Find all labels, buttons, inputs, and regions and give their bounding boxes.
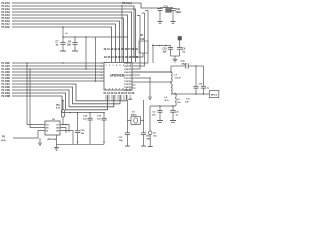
wire U2 out a: [60, 125, 69, 133]
svg-text:P2.0/D8: P2.0/D8: [2, 87, 11, 89]
wire P2.1/D9 net: [12, 90, 114, 107]
wire EEPROM data tap: [30, 69, 45, 128]
wire P2.0/D8 net: [12, 87, 120, 104]
wire P10 vertical: [121, 5, 123, 62]
wire P4.7/A7 net: [12, 24, 116, 62]
wire Y1 bottom stub: [142, 53, 144, 57]
capacitor C9: [177, 46, 182, 57]
svg-text:P1.5/D5: P1.5/D5: [2, 78, 11, 80]
junction pr a: [159, 105, 161, 107]
svg-text:P4.2/A2: P4.2/A2: [2, 8, 11, 11]
svg-text:P4.0/A0: P4.0/A0: [2, 2, 11, 5]
ground C7: [60, 50, 66, 52]
wire bead down: [179, 40, 181, 46]
svg-text:10u: 10u: [152, 115, 156, 117]
svg-text:1uF: 1uF: [163, 52, 168, 54]
svg-text:1uF: 1uF: [185, 102, 190, 104]
wire VCC rail: [63, 36, 128, 38]
ground xtal left: [158, 22, 163, 24]
svg-text:C10: C10: [163, 49, 168, 51]
wire P4.4/A4 net: [12, 15, 128, 62]
svg-text:7: 7: [127, 65, 128, 67]
wire VDD rail: [152, 45, 171, 47]
wire P4.3/A3 net: [12, 12, 132, 62]
wire P1.0/D0 net: [12, 62, 104, 64]
svg-text:P4.4/A4: P4.4/A4: [2, 14, 11, 17]
wire EEPROM clk tap: [27, 63, 45, 125]
wire P1.5/D5 net: [12, 77, 104, 79]
svg-text:3: 3: [113, 65, 114, 67]
capacitor C3: [170, 106, 175, 121]
ground D1: [148, 146, 153, 148]
svg-text:P2.1/D9: P2.1/D9: [2, 90, 11, 92]
svg-text:P4.6/A6: P4.6/A6: [2, 20, 11, 23]
svg-text:8: 8: [130, 65, 131, 67]
wire P1.7/D7 net: [12, 84, 126, 101]
ground C3: [170, 121, 176, 123]
wire rail drop: [85, 37, 87, 69]
wire P4.2/A2 net: [12, 9, 136, 62]
svg-text:P2.2/DA: P2.2/DA: [2, 92, 11, 95]
capacitor C12 plates: [141, 133, 146, 146]
junction dot bus b: [29, 68, 31, 70]
svg-text:10n: 10n: [67, 45, 72, 47]
junction U2 a: [65, 124, 67, 126]
svg-text:(R): (R): [147, 135, 150, 137]
wire P1.3/D3 net: [12, 71, 104, 73]
U1 right pin labels: [124, 63, 132, 92]
wire P4.6/A6 net: [12, 21, 120, 62]
svg-text:5.06: 5.06: [140, 39, 145, 41]
svg-text:P12/T6: P12/T6: [124, 81, 132, 83]
wire xtal link right: [141, 120, 144, 122]
ground xtal right: [171, 22, 176, 24]
svg-text:P11/T5: P11/T5: [124, 78, 132, 80]
svg-text:P03/T3: P03/T3: [124, 72, 132, 74]
junction VDD b: [165, 45, 167, 47]
junction dot bus a: [26, 62, 28, 64]
svg-text:P1.4/D4: P1.4/D4: [2, 74, 11, 77]
junction C13 bottom: [103, 141, 105, 143]
svg-text:P4.1/A1: P4.1/A1: [2, 5, 11, 8]
capacitor C16: [170, 9, 175, 22]
U1 inside bottom row: [105, 87, 132, 90]
svg-text:15p: 15p: [119, 140, 123, 142]
svg-text:56pF: 56pF: [176, 11, 182, 14]
wire xtal link left: [127, 120, 131, 122]
capacitor C2: [157, 106, 162, 121]
capacitor C6: [72, 37, 77, 51]
ground C11: [125, 145, 130, 147]
U1 left pin numbers: [101, 63, 102, 83]
svg-text:P1.1/D1: P1.1/D1: [2, 66, 11, 68]
capacitor C19 series: [186, 63, 204, 68]
svg-text:AT93C46: AT93C46: [47, 138, 57, 141]
U1 right extra stubs: [132, 85, 136, 88]
wire U2 out b: [60, 128, 66, 134]
capacitor C15: [157, 9, 162, 22]
crystal Y1 box: [139, 41, 148, 53]
wire P2.3/DB net: [12, 96, 104, 113]
capacitor C14: [87, 112, 92, 144]
wire XT riser b: [132, 13, 145, 66]
svg-text:C15: C15: [164, 6, 169, 9]
svg-text:P1.0/D0: P1.0/D0: [2, 63, 11, 65]
capacitor C16b: [75, 112, 80, 144]
connector RFout: [209, 91, 219, 98]
wire XT riser a: [132, 11, 148, 64]
junction rail drop: [85, 68, 87, 70]
wire mid node: [132, 81, 171, 83]
wire P5 link: [13, 131, 45, 139]
svg-text:uPD: uPD: [128, 99, 133, 101]
svg-text:(R1): (R1): [56, 104, 61, 106]
inductor L1: [171, 72, 172, 82]
capacitor C11 plates: [125, 133, 130, 146]
junction L1 top: [170, 71, 172, 73]
capacitor C20: [193, 66, 198, 94]
ground U2: [54, 148, 59, 151]
svg-text:P4.3/A3: P4.3/A3: [2, 11, 11, 14]
junction RF b: [203, 93, 205, 95]
wire P1.6/D6 net: [12, 80, 104, 82]
wire gnd drop: [132, 78, 150, 97]
ground arrow P5: [39, 138, 42, 146]
wire RF bottom: [171, 93, 209, 95]
svg-text:6: 6: [123, 65, 124, 67]
wire rail corner: [149, 106, 151, 131]
svg-text:P2.3/DB: P2.3/DB: [2, 96, 11, 98]
U1 inside top row: [106, 64, 132, 67]
wire U1 right stub: [132, 71, 171, 73]
svg-text:P1.7/D7: P1.7/D7: [2, 84, 11, 86]
junction dot rail a: [62, 36, 64, 38]
junction RF a: [195, 93, 197, 95]
ground C9 C10: [173, 56, 178, 62]
svg-text:10u: 10u: [153, 136, 157, 138]
svg-text:P1.6/D6: P1.6/D6: [2, 81, 11, 83]
svg-text:P1.0 (L): P1.0 (L): [122, 1, 132, 5]
crystal X1 body: [131, 117, 141, 125]
junction C20 top: [195, 65, 197, 67]
op-amp U1 body: [104, 63, 132, 91]
wire L link: [170, 82, 172, 84]
svg-text:5: 5: [120, 65, 121, 67]
svg-text:1.5uH: 1.5uH: [175, 78, 181, 80]
LED D1: [148, 131, 152, 135]
wire RF top: [171, 65, 186, 67]
svg-text:10n: 10n: [97, 118, 101, 120]
junction L3 top: [174, 93, 176, 95]
op-amp U2 body: [45, 121, 60, 135]
wire xtal top link: [160, 7, 173, 9]
inductor L3: [175, 94, 176, 107]
svg-text:P4.7/A7: P4.7/A7: [2, 23, 11, 26]
wire RF corner: [203, 66, 205, 86]
junction gnd drop: [149, 77, 151, 79]
VDD pad: [178, 37, 182, 41]
wire L1 riser: [170, 66, 172, 72]
ground C2: [157, 121, 163, 123]
wire D1 down: [149, 135, 151, 147]
svg-text:4: 4: [101, 71, 102, 74]
wire U2 out c: [60, 131, 73, 145]
wire P1.1/D1 net: [12, 65, 104, 67]
wire XT riser c: [132, 16, 140, 70]
wire rail drop b: [95, 37, 97, 81]
wire ground rail bottom: [57, 143, 105, 145]
svg-text:4.7u: 4.7u: [165, 99, 170, 102]
svg-text:10n: 10n: [81, 133, 85, 135]
svg-text:1: 1: [106, 65, 107, 67]
capacitor C21: [201, 86, 206, 94]
svg-text:68pF: 68pF: [182, 63, 188, 65]
wire U2 gnd: [56, 135, 58, 148]
resistor R1: [61, 100, 64, 126]
wire P2.2/DA net: [12, 93, 108, 110]
junction pr b: [172, 105, 174, 107]
ground C12: [141, 145, 146, 147]
U1 top pin numbers row: [104, 48, 139, 51]
junction stair k4: [69, 112, 71, 114]
ground C6: [72, 50, 78, 52]
wire xtal net right: [143, 100, 145, 133]
U1 bottom pin stubs: [106, 95, 130, 100]
svg-text:P1.2/D2: P1.2/D2: [2, 69, 11, 71]
svg-text:P13/T7: P13/T7: [124, 84, 132, 86]
wire P1.2/D2 net: [12, 68, 104, 70]
wire power rail: [150, 105, 175, 107]
svg-text:4.7p: 4.7p: [181, 59, 186, 62]
crystal X2: [166, 9, 171, 13]
junction dot rail b: [74, 36, 76, 38]
svg-text:10n: 10n: [83, 118, 87, 120]
svg-text:P02/T2: P02/T2: [124, 69, 132, 71]
svg-text:P1.3/D3: P1.3/D3: [2, 72, 11, 74]
capacitor C10: [168, 46, 173, 57]
inductor L2: [171, 84, 172, 94]
junction VDD a: [159, 45, 161, 47]
junction bus vcc: [62, 62, 64, 64]
U1 top pin names row: [104, 56, 139, 59]
wire P4.5/A5 net: [12, 18, 124, 62]
svg-text:(0.4): (0.4): [1, 139, 6, 142]
wire P4.1/A1 net: [12, 6, 143, 57]
junction rail drop b: [95, 80, 97, 82]
junction dot rail c: [85, 36, 87, 38]
wire P5.0/A8 net: [12, 27, 112, 62]
ground arrow U1: [149, 97, 152, 100]
wire P4.0/A0 net: [12, 3, 160, 8]
svg-text:P4.5/A5: P4.5/A5: [2, 17, 11, 20]
wire right mystery: [152, 44, 154, 63]
svg-text:10u: 10u: [177, 102, 181, 104]
capacitor C13: [101, 112, 106, 144]
wire U1 to L1 top: [132, 71, 171, 73]
VCC symbol: [62, 26, 64, 37]
wire xtal net left: [126, 100, 128, 133]
wire P1.4/D4 net: [12, 74, 104, 76]
svg-text:P10/T4: P10/T4: [124, 74, 132, 77]
wire caps join: [171, 55, 180, 57]
U1 bottom pin numbers row: [104, 92, 135, 95]
wire U1 stub75: [132, 74, 140, 76]
svg-text:RFout: RFout: [211, 93, 218, 96]
svg-text:P5.0/A8: P5.0/A8: [2, 26, 11, 29]
junction L mid: [170, 81, 172, 83]
svg-text:4MHz: 4MHz: [131, 113, 138, 116]
svg-text:2: 2: [109, 65, 110, 67]
svg-text:uPD9418L: uPD9418L: [110, 73, 125, 77]
capacitor C7: [60, 37, 65, 51]
